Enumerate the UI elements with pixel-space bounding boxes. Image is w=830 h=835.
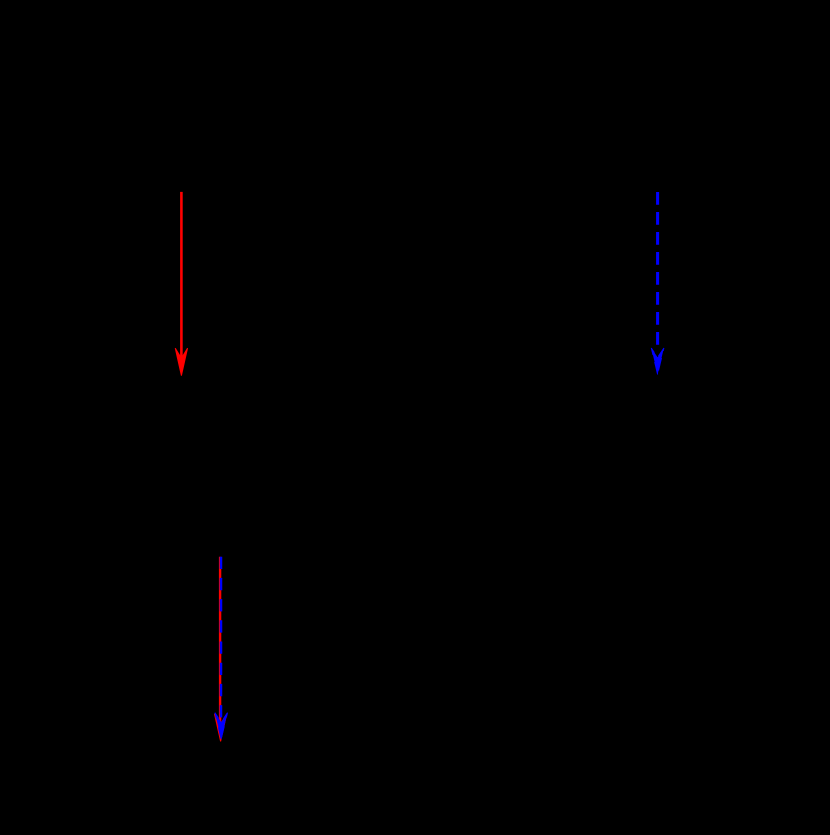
vector F3: red solid arrow (bottom-center), pointing down [214,557,226,742]
wire: blue dashed arrow shaft [220,557,223,723]
wire: red arrow shaft [180,192,183,360]
red arrowhead [214,714,226,742]
wire: blue dashed arrow shaft [656,192,659,349]
vector F2: blue dashed arrow (top-right), pointing down [651,192,664,375]
blue arrowhead [215,713,228,740]
wire: red arrow shaft [219,557,221,726]
vector F4: blue dashed arrow overlapping F3 (bottom-center), pointing down [215,557,228,740]
red arrowhead [175,348,187,376]
vector F1: red solid arrow (top-left), pointing down [175,192,187,376]
blue arrowhead [651,348,664,375]
